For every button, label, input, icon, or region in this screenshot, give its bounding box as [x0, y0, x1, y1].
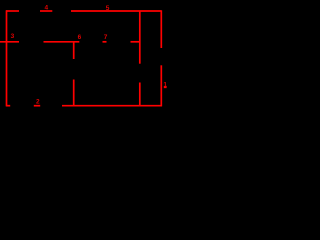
wire stub 3 horizontal [0, 41, 19, 43]
wire center vertical upper [73, 42, 75, 59]
wire inner-right vertical lower [139, 83, 141, 106]
svg-text:7: 7 [104, 34, 108, 41]
wire bottom segment C [62, 105, 162, 107]
svg-text:5: 5 [106, 5, 110, 12]
wire right vertical lower [160, 65, 162, 106]
wire middle segment C [131, 41, 140, 43]
wire inner-right vertical upper [139, 11, 141, 64]
svg-text:1: 1 [163, 82, 167, 89]
svg-text:6: 6 [78, 34, 82, 41]
wire left vertical [6, 10, 8, 106]
wire top segment C [71, 10, 161, 12]
wire middle segment A [44, 41, 80, 43]
wire center vertical lower [73, 80, 75, 106]
wire bottom segment A [6, 105, 10, 107]
wire right vertical upper [160, 10, 162, 48]
label 1 underline [164, 86, 167, 88]
svg-text:4: 4 [44, 5, 48, 12]
svg-text:2: 2 [36, 99, 40, 106]
wire middle segment B (under label 7) [103, 41, 107, 43]
wire top segment A [6, 10, 19, 12]
wire bottom segment B (under label 2) [34, 105, 40, 107]
svg-text:3: 3 [11, 33, 15, 40]
wire top segment B (under label 4) [40, 10, 52, 12]
